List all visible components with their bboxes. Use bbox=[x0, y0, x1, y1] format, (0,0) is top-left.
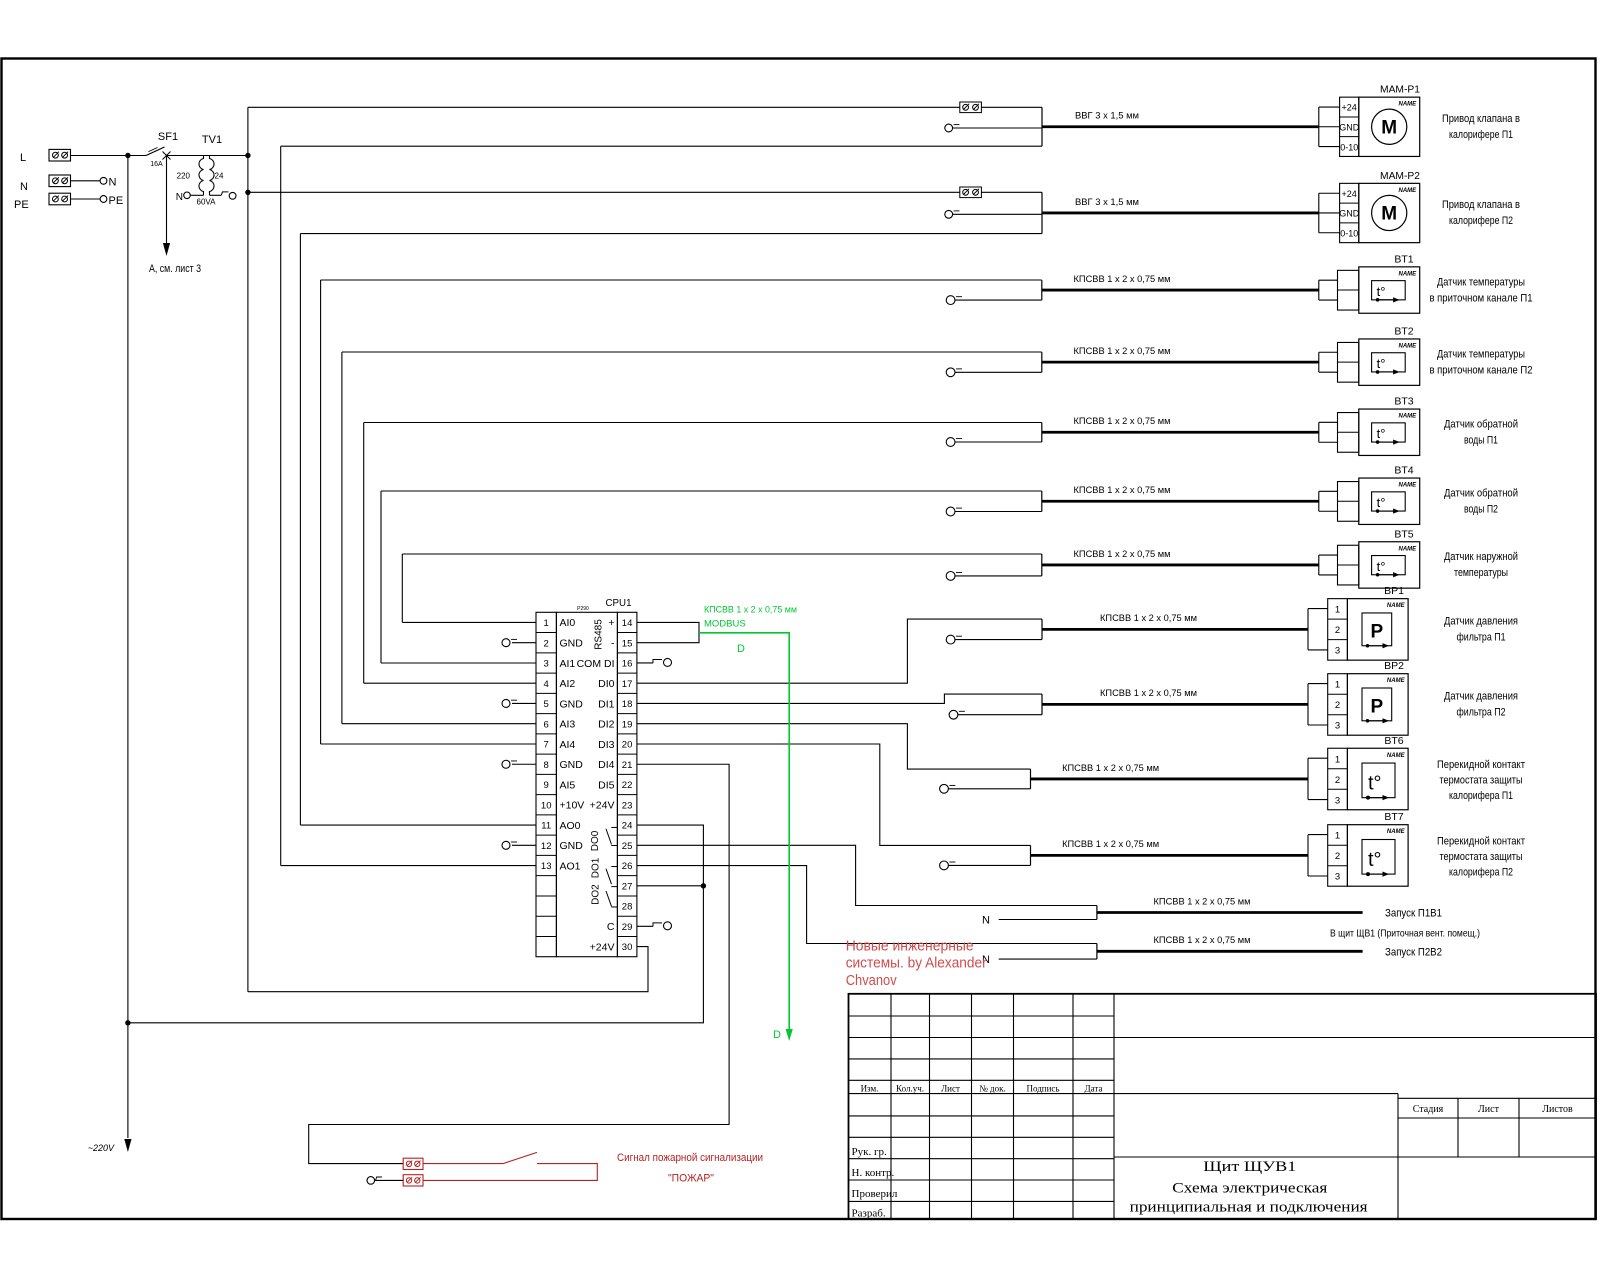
svg-text:Перекидной контакт: Перекидной контакт bbox=[1437, 759, 1525, 771]
svg-text:Chvanov: Chvanov bbox=[846, 972, 897, 989]
wire GND return row MAM-P2 bbox=[300, 233, 1042, 235]
svg-text:КПСВВ 1 х 2 х 0,75 мм: КПСВВ 1 х 2 х 0,75 мм bbox=[1154, 935, 1251, 946]
label text BP1 bbox=[1444, 616, 1518, 644]
svg-text:5: 5 bbox=[544, 699, 549, 710]
svg-text:t°: t° bbox=[1377, 426, 1386, 441]
cable KPSVV to BT7 bbox=[1031, 839, 1309, 855]
svg-text:КПСВВ 1 х 2 х 0,75 мм: КПСВВ 1 х 2 х 0,75 мм bbox=[1074, 346, 1171, 357]
sensor circuit bar BT7 bbox=[1030, 845, 1032, 865]
wire RS485 loop pins 14-15 bbox=[637, 622, 699, 642]
wire pin27 to relay common node bbox=[637, 885, 704, 887]
wire phase bus L down to ~220V arrow bbox=[88, 156, 132, 1154]
shield stub BT2 bbox=[946, 368, 1042, 377]
cable KPSVV to BT6 bbox=[1031, 763, 1309, 779]
svg-text:3: 3 bbox=[1335, 795, 1340, 806]
wire GND return row MAM-P1 bbox=[281, 145, 1042, 147]
svg-text:DI5: DI5 bbox=[598, 779, 615, 791]
svg-text:BT3: BT3 bbox=[1394, 396, 1413, 408]
svg-text:1: 1 bbox=[544, 618, 549, 629]
svg-text:КПСВВ 1 х 2 х 0,75 мм: КПСВВ 1 х 2 х 0,75 мм bbox=[704, 605, 797, 616]
svg-text:P: P bbox=[1371, 696, 1384, 717]
svg-text:~220V: ~220V bbox=[88, 1143, 115, 1153]
temperature sensor BT1 bbox=[1319, 253, 1420, 313]
svg-text:t°: t° bbox=[1368, 849, 1382, 871]
node 24V bus top junction bbox=[245, 153, 250, 158]
svg-text:температуры: температуры bbox=[1454, 567, 1508, 579]
svg-text:NAME: NAME bbox=[1387, 603, 1406, 609]
svg-text:11: 11 bbox=[541, 821, 551, 832]
pin 2 GND stub bbox=[502, 639, 536, 647]
wire DI3 (pin20) to BT7 bbox=[637, 744, 1031, 845]
svg-text:COM DI: COM DI bbox=[577, 658, 615, 670]
svg-text:воды П2: воды П2 bbox=[1464, 503, 1498, 515]
shield stub BT3 bbox=[946, 438, 1042, 447]
control stub 0-10V MAM-P1 bbox=[945, 124, 1042, 132]
svg-text:фильтра П1: фильтра П1 bbox=[1457, 632, 1506, 644]
svg-text:КПСВВ 1 х 2 х 0,75 мм: КПСВВ 1 х 2 х 0,75 мм bbox=[1062, 763, 1159, 774]
svg-text:BP2: BP2 bbox=[1384, 660, 1404, 672]
svg-text:КПСВВ 1 х 2 х 0,75 мм: КПСВВ 1 х 2 х 0,75 мм bbox=[1154, 896, 1251, 907]
sensor circuit wire BT3 bbox=[1041, 423, 1043, 443]
wire DI0 (pin17) to BP1 bbox=[637, 619, 1042, 683]
cable mark on MAM-P2 feed bbox=[960, 187, 982, 198]
temperature sensor BT2 bbox=[1319, 325, 1420, 385]
svg-text:1: 1 bbox=[1335, 831, 1340, 842]
svg-text:3: 3 bbox=[544, 659, 549, 670]
svg-text:N: N bbox=[982, 915, 990, 927]
svg-text:29: 29 bbox=[622, 922, 633, 933]
svg-text:+24: +24 bbox=[1342, 189, 1357, 199]
svg-text:28: 28 bbox=[622, 902, 633, 913]
svg-text:NAME: NAME bbox=[1399, 188, 1418, 194]
svg-text:AO0: AO0 bbox=[560, 820, 581, 832]
relay contact DO1 (pins 26-27) bbox=[591, 857, 618, 884]
sensor circuit bar BT6 bbox=[1030, 769, 1032, 789]
cable KPSVV to Запуск П2В2 bbox=[1097, 935, 1363, 951]
svg-text:AI0: AI0 bbox=[560, 617, 576, 629]
node A (phase junction) bbox=[125, 153, 130, 158]
control stub 0-10V MAM-P2 bbox=[945, 210, 1042, 218]
svg-text:MAM-P1: MAM-P1 bbox=[1380, 84, 1420, 96]
svg-text:+24V: +24V bbox=[590, 800, 615, 812]
sensor circuit wire BT5 bbox=[1041, 554, 1043, 576]
protection thermostat BT7 bbox=[1308, 811, 1408, 886]
terminal N (input neutral) bbox=[20, 175, 71, 193]
svg-text:t°: t° bbox=[1368, 773, 1382, 795]
svg-text:16A: 16A bbox=[150, 161, 163, 168]
fan motor MAM-P2 bbox=[1319, 170, 1420, 243]
svg-text:t°: t° bbox=[1377, 356, 1386, 371]
svg-text:C: C bbox=[607, 921, 615, 933]
label text BT1 bbox=[1430, 276, 1533, 304]
svg-text:25: 25 bbox=[622, 841, 633, 852]
svg-text:20: 20 bbox=[622, 740, 633, 751]
svg-text:8: 8 bbox=[544, 760, 549, 771]
svg-text:24: 24 bbox=[622, 821, 633, 832]
svg-text:Датчик обратной: Датчик обратной bbox=[1444, 487, 1518, 499]
wire 24V feed row MAM-P2 bbox=[248, 191, 1042, 193]
svg-text:NAME: NAME bbox=[1387, 678, 1406, 684]
svg-text:Стадия: Стадия bbox=[1413, 1104, 1444, 1115]
label text BT3 bbox=[1444, 418, 1518, 446]
svg-text:4: 4 bbox=[544, 679, 549, 690]
wire +24V (pin30) to 24V bus bbox=[248, 947, 648, 992]
relay contact DO2 (pins 27-28) bbox=[591, 884, 618, 907]
cable KPSVV to BT1 bbox=[1042, 274, 1319, 290]
svg-text:10: 10 bbox=[541, 800, 552, 811]
svg-text:16: 16 bbox=[622, 659, 633, 670]
svg-text:Перекидной контакт: Перекидной контакт bbox=[1437, 835, 1525, 847]
svg-text:6: 6 bbox=[544, 719, 549, 730]
svg-text:В щит ЩВ1 (Приточная вент. пом: В щит ЩВ1 (Приточная вент. помещ.) bbox=[1330, 928, 1480, 940]
svg-text:Сигнал пожарной сигнализации: Сигнал пожарной сигнализации bbox=[617, 1152, 763, 1164]
cable KPSVV to BP1 bbox=[1042, 613, 1308, 629]
svg-text:1: 1 bbox=[1335, 680, 1340, 691]
label text Запуск П2В2 bbox=[1385, 946, 1442, 958]
svg-text:RS485: RS485 bbox=[594, 619, 605, 650]
svg-text:2: 2 bbox=[1335, 851, 1340, 862]
label text BT7 bbox=[1437, 835, 1525, 878]
temperature sensor BT5 bbox=[1319, 528, 1420, 588]
svg-text:27: 27 bbox=[622, 881, 633, 892]
wire DI1 (pin18) to BP2 bbox=[637, 694, 1042, 703]
svg-text:BT6: BT6 bbox=[1384, 735, 1403, 747]
svg-text:NAME: NAME bbox=[1387, 753, 1406, 759]
terminal PE (protective earth) bbox=[14, 193, 71, 211]
temperature sensor BT3 bbox=[1319, 396, 1420, 456]
svg-text:КПСВВ 1 х 2 х 0,75 мм: КПСВВ 1 х 2 х 0,75 мм bbox=[1062, 839, 1159, 850]
svg-text:NAME: NAME bbox=[1399, 102, 1418, 108]
svg-text:2: 2 bbox=[1335, 625, 1340, 636]
svg-text:D: D bbox=[773, 1029, 781, 1041]
svg-text:21: 21 bbox=[622, 760, 633, 771]
svg-text:Привод клапана в: Привод клапана в bbox=[1442, 113, 1520, 125]
svg-text:воды П1: воды П1 bbox=[1464, 434, 1498, 446]
protection thermostat BT6 bbox=[1308, 735, 1408, 810]
svg-text:Рук. гр.: Рук. гр. bbox=[852, 1146, 887, 1158]
svg-text:220: 220 bbox=[177, 172, 191, 181]
shield stub BP1 bbox=[946, 635, 1042, 644]
svg-text:BT4: BT4 bbox=[1394, 465, 1413, 477]
sensor circuit bar BP2 bbox=[1041, 694, 1043, 715]
svg-text:в приточном канале П1: в приточном канале П1 bbox=[1430, 292, 1533, 304]
shield stub BT4 bbox=[946, 507, 1042, 516]
circuit breaker SF1 bbox=[128, 131, 178, 168]
svg-text:принципиальная и подключения: принципиальная и подключения bbox=[1130, 1200, 1368, 1216]
wire SF1 to transformer and 24V bus bbox=[167, 155, 248, 157]
transformer primary N terminal bbox=[176, 192, 204, 203]
svg-text:24: 24 bbox=[215, 172, 224, 181]
svg-text:-: - bbox=[611, 637, 615, 649]
svg-text:1: 1 bbox=[1335, 605, 1340, 616]
svg-text:2: 2 bbox=[544, 638, 549, 649]
sensor circuit wire BT2 bbox=[1041, 352, 1043, 372]
temperature sensor BT4 bbox=[1319, 465, 1420, 525]
svg-text:ВВГ 3 х 1,5 мм: ВВГ 3 х 1,5 мм bbox=[1075, 111, 1139, 122]
wire DI4 (pin21) to fire alarm contact bbox=[309, 764, 729, 1163]
node D (modbus top) bbox=[737, 643, 745, 655]
svg-text:3: 3 bbox=[1335, 872, 1340, 883]
svg-text:D: D bbox=[737, 643, 745, 655]
svg-text:AI2: AI2 bbox=[560, 678, 576, 690]
svg-text:12: 12 bbox=[541, 841, 552, 852]
svg-text:Датчик температуры: Датчик температуры bbox=[1437, 276, 1525, 288]
junction bar row MAM-P1 bbox=[1041, 107, 1043, 146]
svg-text:GND: GND bbox=[1339, 122, 1360, 132]
svg-text:AI3: AI3 bbox=[560, 719, 576, 731]
wire N stub with connector bbox=[71, 177, 117, 189]
shield stub BP2 bbox=[949, 710, 1042, 719]
svg-text:t°: t° bbox=[1377, 495, 1386, 510]
svg-text:Кол.уч.: Кол.уч. bbox=[896, 1084, 924, 1094]
transformer secondary C terminal connector bbox=[210, 192, 237, 199]
transformer TV1 220/24V bbox=[177, 134, 224, 207]
cable mark on MAM-P1 feed bbox=[960, 102, 982, 113]
label text MAM-P2 bbox=[1442, 199, 1520, 227]
svg-text:CPU1: CPU1 bbox=[606, 597, 632, 609]
pin 8 GND stub bbox=[502, 760, 536, 768]
svg-text:DI3: DI3 bbox=[598, 739, 615, 751]
svg-text:BT1: BT1 bbox=[1394, 253, 1413, 265]
svg-text:2: 2 bbox=[1335, 700, 1340, 711]
fan motor MAM-P1 bbox=[1319, 84, 1420, 157]
MODBUS RS485 green cable bbox=[699, 605, 797, 1042]
svg-text:DO2: DO2 bbox=[591, 884, 602, 905]
svg-text:L: L bbox=[20, 152, 26, 164]
wire DI2 (pin19) to BT6 bbox=[637, 724, 1031, 769]
svg-text:DO0: DO0 bbox=[590, 830, 601, 851]
N stub Запуск П2В2 bbox=[982, 954, 1097, 966]
wire AI2 circuit to BT3 (rail x364) bbox=[364, 423, 1042, 684]
label text BP2 bbox=[1444, 691, 1518, 719]
arrow A, see sheet 3 bbox=[149, 156, 201, 276]
svg-text:Датчик давления: Датчик давления bbox=[1444, 616, 1518, 628]
shield stub BT7 bbox=[940, 861, 1031, 870]
svg-text:18: 18 bbox=[622, 699, 633, 710]
label text BT5 bbox=[1444, 551, 1518, 579]
svg-text:термостата защиты: термостата защиты bbox=[1440, 851, 1523, 863]
wire L to node bbox=[71, 155, 128, 157]
svg-text:BT7: BT7 bbox=[1384, 811, 1403, 823]
watermark text bbox=[846, 938, 987, 990]
svg-text:NAME: NAME bbox=[1399, 343, 1418, 349]
svg-text:Датчик наружной: Датчик наружной bbox=[1444, 551, 1518, 563]
svg-text:Подпись: Подпись bbox=[1026, 1084, 1059, 1094]
sensor circuit bar BP1 bbox=[1041, 619, 1043, 640]
svg-text:BT2: BT2 bbox=[1394, 325, 1413, 337]
terminal L (input phase) bbox=[20, 149, 71, 164]
svg-text:калорифера П1: калорифера П1 bbox=[1449, 790, 1513, 802]
label text BT4 bbox=[1444, 487, 1518, 515]
label text MAM-P1 bbox=[1442, 113, 1520, 141]
svg-text:22: 22 bbox=[622, 780, 633, 791]
svg-text:Запуск П2В2: Запуск П2В2 bbox=[1385, 946, 1442, 958]
svg-text:15: 15 bbox=[622, 638, 633, 649]
svg-text:GND: GND bbox=[560, 637, 584, 649]
svg-text:фильтра П2: фильтра П2 bbox=[1457, 707, 1506, 719]
label text Запуск П1В1 bbox=[1385, 908, 1442, 920]
svg-text:калорифере П2: калорифере П2 bbox=[1449, 215, 1513, 227]
fire alarm terminal block XT-fire lower bbox=[403, 1175, 423, 1186]
svg-text:Датчик давления: Датчик давления bbox=[1444, 691, 1518, 703]
cable KPSVV to BT5 bbox=[1042, 549, 1319, 565]
pin 16 COM DI stub bbox=[637, 658, 672, 666]
cable KPSVV to BP2 bbox=[1042, 688, 1308, 704]
svg-text:КПСВВ 1 х 2 х 0,75 мм: КПСВВ 1 х 2 х 0,75 мм bbox=[1100, 688, 1197, 699]
svg-text:DI4: DI4 bbox=[598, 759, 615, 771]
node D (modbus bottom) bbox=[773, 1029, 781, 1041]
svg-text:+24V: +24V bbox=[590, 941, 615, 953]
svg-text:КПСВВ 1 х 2 х 0,75 мм: КПСВВ 1 х 2 х 0,75 мм bbox=[1074, 549, 1171, 560]
shield stub BT6 bbox=[940, 784, 1031, 793]
svg-text:Запуск П1В1: Запуск П1В1 bbox=[1385, 908, 1442, 920]
svg-text:Листов: Листов bbox=[1542, 1104, 1573, 1115]
svg-text:14: 14 bbox=[622, 618, 633, 629]
svg-text:3: 3 bbox=[1335, 721, 1340, 732]
svg-text:SF1: SF1 bbox=[158, 131, 178, 143]
svg-text:DO1: DO1 bbox=[591, 857, 602, 878]
svg-text:GND: GND bbox=[560, 840, 584, 852]
svg-text:AI1: AI1 bbox=[560, 658, 576, 670]
pin 29 C stub bbox=[637, 922, 672, 930]
svg-text:ВВГ 3 х 1,5 мм: ВВГ 3 х 1,5 мм bbox=[1075, 197, 1139, 208]
start circuit bar Запуск П1В1 bbox=[1096, 906, 1098, 920]
svg-text:AI4: AI4 bbox=[560, 739, 576, 751]
svg-text:"ПОЖАР": "ПОЖАР" bbox=[668, 1173, 714, 1185]
svg-text:Изм.: Изм. bbox=[861, 1084, 879, 1094]
cable KPSVV to BT2 bbox=[1042, 346, 1319, 362]
junction bar row MAM-P2 bbox=[1041, 192, 1043, 233]
svg-text:PE: PE bbox=[14, 199, 29, 211]
svg-text:t°: t° bbox=[1377, 284, 1386, 299]
pressure switch BP2 bbox=[1308, 660, 1408, 735]
svg-text:NAME: NAME bbox=[1399, 483, 1418, 489]
svg-text:DI2: DI2 bbox=[598, 719, 615, 731]
svg-text:GND: GND bbox=[560, 759, 584, 771]
pin 5 GND stub bbox=[502, 699, 536, 707]
svg-text:2: 2 bbox=[1335, 775, 1340, 786]
N stub Запуск П1В1 bbox=[982, 915, 1097, 927]
svg-text:P290: P290 bbox=[577, 606, 589, 612]
wire PE stub with connector bbox=[71, 195, 124, 207]
cable KPSVV to BT4 bbox=[1042, 485, 1319, 501]
title block (GOST stamp) bbox=[849, 994, 1597, 1220]
svg-text:термостата защиты: термостата защиты bbox=[1440, 775, 1523, 787]
svg-text:Проверил: Проверил bbox=[852, 1188, 898, 1200]
PLC controller U1 (CPU1) bbox=[536, 597, 637, 957]
svg-text:Датчик обратной: Датчик обратной bbox=[1444, 418, 1518, 430]
svg-text:MODBUS: MODBUS bbox=[704, 619, 746, 630]
svg-text:NAME: NAME bbox=[1387, 829, 1406, 835]
wire AI1 circuit to BT4 (rail x381) bbox=[381, 491, 1042, 663]
svg-text:17: 17 bbox=[622, 679, 633, 690]
svg-text:N: N bbox=[109, 177, 117, 189]
svg-text:КПСВВ 1 х 2 х 0,75 мм: КПСВВ 1 х 2 х 0,75 мм bbox=[1074, 416, 1171, 427]
node relay common junction bbox=[701, 883, 706, 888]
wire 24V supply bus (vertical x248) bbox=[247, 107, 249, 991]
svg-text:Дата: Дата bbox=[1085, 1084, 1103, 1094]
svg-text:26: 26 bbox=[622, 861, 633, 872]
shield stub BT5 bbox=[946, 572, 1042, 581]
svg-text:NAME: NAME bbox=[1399, 546, 1418, 552]
svg-text:TV1: TV1 bbox=[202, 134, 222, 146]
wire AI3 circuit to BT2 (rail x342) bbox=[342, 352, 1042, 724]
svg-text:Лист: Лист bbox=[1478, 1104, 1500, 1115]
sensor circuit wire BT4 bbox=[1041, 491, 1043, 512]
svg-text:3: 3 bbox=[1335, 646, 1340, 657]
svg-text:M: M bbox=[1381, 117, 1397, 138]
svg-text:0-10: 0-10 bbox=[1340, 228, 1358, 238]
fire alarm dry contact POZHAR bbox=[423, 1152, 597, 1180]
svg-text:19: 19 bbox=[622, 719, 633, 730]
svg-text:Схема электрическая: Схема электрическая bbox=[1172, 1181, 1327, 1197]
svg-text:NAME: NAME bbox=[1399, 271, 1418, 277]
svg-text:P: P bbox=[1371, 621, 1384, 642]
svg-text:Датчик температуры: Датчик температуры bbox=[1437, 348, 1525, 360]
svg-text:AI5: AI5 bbox=[560, 779, 576, 791]
svg-text:60VA: 60VA bbox=[197, 198, 217, 207]
svg-text:BP1: BP1 bbox=[1384, 585, 1404, 597]
svg-text:GND: GND bbox=[560, 698, 584, 710]
node 24V bus N junction bbox=[245, 190, 250, 195]
svg-text:DI1: DI1 bbox=[598, 698, 615, 710]
cable KPSVV to Запуск П1В1 bbox=[1097, 896, 1363, 912]
svg-text:в приточном канале П2: в приточном канале П2 bbox=[1430, 364, 1533, 376]
svg-text:Лист: Лист bbox=[941, 1084, 960, 1094]
wire 24V feed row MAM-P1 bbox=[248, 106, 1042, 108]
svg-text:системы. by Alexander: системы. by Alexander bbox=[846, 955, 987, 972]
wire AI0 circuit to BT5 (rail x402) bbox=[402, 554, 1042, 622]
cable KPSVV to BT3 bbox=[1042, 416, 1319, 432]
svg-text:Н. контр.: Н. контр. bbox=[852, 1167, 895, 1179]
node on phase bus to relay common bbox=[125, 1020, 130, 1025]
svg-text:7: 7 bbox=[544, 740, 549, 751]
shield stub BT1 bbox=[946, 296, 1042, 305]
svg-text:t°: t° bbox=[1377, 559, 1386, 574]
wire AI4 circuit to BT1 (rail x321) bbox=[321, 280, 1042, 744]
svg-text:+: + bbox=[608, 617, 614, 629]
relay contact DO0 (pins 24-25) bbox=[590, 827, 617, 851]
svg-text:+10V: +10V bbox=[560, 800, 585, 812]
svg-text:13: 13 bbox=[541, 861, 552, 872]
svg-text:1: 1 bbox=[1335, 754, 1340, 765]
svg-text:№ док.: № док. bbox=[979, 1084, 1006, 1094]
start circuit bar Запуск П2В2 bbox=[1096, 944, 1098, 960]
svg-text:M: M bbox=[1381, 203, 1397, 224]
svg-text:Новые инженерные: Новые инженерные bbox=[846, 938, 974, 955]
label to panel SHCHV1 bbox=[1330, 928, 1480, 940]
wire DO relay (pin26) to start P2V2 bbox=[637, 866, 1097, 944]
wire DO relay (pin25) to start P1V1 bbox=[637, 845, 1097, 905]
svg-text:Разраб.: Разраб. bbox=[852, 1208, 886, 1220]
svg-text:КПСВВ 1 х 2 х 0,75 мм: КПСВВ 1 х 2 х 0,75 мм bbox=[1074, 274, 1171, 285]
svg-text:калорифере П1: калорифере П1 bbox=[1449, 129, 1513, 141]
svg-text:Привод клапана в: Привод клапана в bbox=[1442, 199, 1520, 211]
svg-text:9: 9 bbox=[544, 780, 549, 791]
wire DO0 (pin24) to phase bus bbox=[128, 825, 704, 1023]
pressure switch BP1 bbox=[1308, 585, 1408, 660]
svg-text:КПСВВ 1 х 2 х 0,75 мм: КПСВВ 1 х 2 х 0,75 мм bbox=[1074, 485, 1171, 496]
label fire alarm signal bbox=[617, 1152, 763, 1185]
wire AO1 circuit to MAM-P1 (rail x281) bbox=[281, 146, 536, 865]
svg-text:0-10: 0-10 bbox=[1340, 142, 1358, 152]
svg-text:PE: PE bbox=[109, 195, 124, 207]
svg-text:N: N bbox=[176, 192, 183, 203]
svg-text:BT5: BT5 bbox=[1394, 528, 1413, 540]
sensor circuit wire BT1 bbox=[1041, 280, 1043, 300]
svg-text:NAME: NAME bbox=[1399, 414, 1418, 420]
svg-text:калорифера П2: калорифера П2 bbox=[1449, 866, 1513, 878]
